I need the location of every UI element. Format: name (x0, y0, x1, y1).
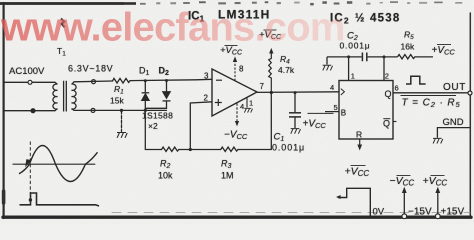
resistor R5 zigzag (398, 55, 434, 59)
pulse waveform below sine (20, 193, 100, 206)
wire IC2 pin5 to +Vcc (325, 111, 339, 113)
formula T = C2 R5 (401, 95, 457, 97)
arrow pin8 +Vcc (233, 56, 237, 62)
sine waveform axis (13, 163, 96, 165)
wire C2 net (327, 53, 398, 81)
transformer T1 core (64, 81, 67, 112)
border frame right (469, 13, 471, 218)
node junction bottom wire / ground (120, 109, 123, 112)
ground left of C2 (323, 65, 333, 70)
node C1 top junction (294, 91, 297, 94)
supply +Vcc arrow (437, 193, 439, 216)
GND wire (437, 128, 470, 138)
resistor R4 vertical (269, 54, 272, 93)
wire secondary bottom (72, 109, 167, 111)
Qbar stub (393, 121, 396, 123)
transformer T1 primary winding (53, 84, 58, 109)
arrow on sine at zero crossing (25, 159, 32, 167)
wire R1 to pin3 (130, 79, 212, 80)
node D2 top junction (165, 79, 168, 82)
border frame left (2, 3, 4, 218)
wire output bus (pin7 to IC2 pin4) (257, 91, 339, 94)
border frame bottom (3, 215, 471, 218)
terminal AC top (28, 80, 32, 84)
node junction D1 bottom wire (144, 109, 147, 112)
supply -Vcc arrow (403, 193, 405, 216)
terminal secondary bottom (91, 108, 95, 112)
small smudge mark above T1 (61, 19, 65, 28)
wire AC bottom (4, 109, 57, 111)
capacitor C2 plates (362, 53, 366, 62)
node rail junction pin2 (189, 148, 192, 151)
resistor R3 zigzag (221, 147, 238, 151)
terminal -15V (402, 214, 407, 219)
wire pin2 to lower rail (190, 102, 212, 150)
wire pin1 up (348, 57, 350, 81)
ground under C1 (291, 129, 301, 134)
diode D2 (145, 81, 170, 109)
faint paper edge line (112, 212, 470, 214)
sine waveform curve (19, 146, 98, 182)
diode D1 (142, 81, 150, 150)
terminal AC bottom (31, 109, 35, 113)
node pin1 junction (347, 55, 350, 58)
arrow R4 +Vcc (269, 48, 273, 54)
border blob artifact (2, 191, 6, 203)
paper grain (0, 0, 1, 1)
IC2 4538 box (339, 81, 393, 140)
terminal secondary top (92, 80, 96, 84)
node D1 top junction (144, 79, 147, 82)
transformer T1 secondary winding (72, 84, 77, 109)
op-amp minus input mark (216, 79, 222, 81)
resistor R1 zigzag (113, 78, 131, 83)
pin 4 wire and arrow to -Vcc (236, 103, 238, 121)
op-amp U1 LM311 triangle (212, 69, 257, 116)
wire feedback vertical to lower rail (270, 93, 272, 150)
wire C2 left to ground (326, 57, 328, 65)
ground under transformer (117, 133, 127, 138)
wire pin8 to +Vcc (234, 62, 236, 81)
border frame top (0, 2, 124, 4)
svg-text:www.elecfans.com: www.elecfans.com (0, 6, 345, 50)
pin 1 wire and ground (246, 98, 248, 108)
terminal OUT (468, 91, 472, 95)
node pin2 junction (383, 55, 386, 58)
sine waveform dashed vertical (29, 142, 31, 193)
capacitor C1 (289, 93, 301, 128)
node R4/feedback junction (270, 91, 273, 94)
edge trigger mark input A (341, 89, 345, 95)
op-amp plus input mark (215, 99, 222, 106)
ground GND (433, 138, 443, 143)
resistor R2 zigzag (162, 147, 179, 151)
wire AC top (4, 82, 57, 84)
lower rail with R2 R3 (145, 147, 271, 151)
pulse symbol on OUT (406, 76, 426, 84)
terminal +15V (435, 214, 440, 219)
wire OUT (393, 92, 470, 94)
wire secondary top to comparator (72, 81, 113, 84)
reset waveform 0V (338, 188, 371, 216)
wire reset pin to +Vcc (359, 139, 361, 145)
wire pin2 up (383, 57, 385, 81)
cut-off text strip along top (0, 1, 462, 5)
wire ground stub under transformer (121, 111, 123, 132)
